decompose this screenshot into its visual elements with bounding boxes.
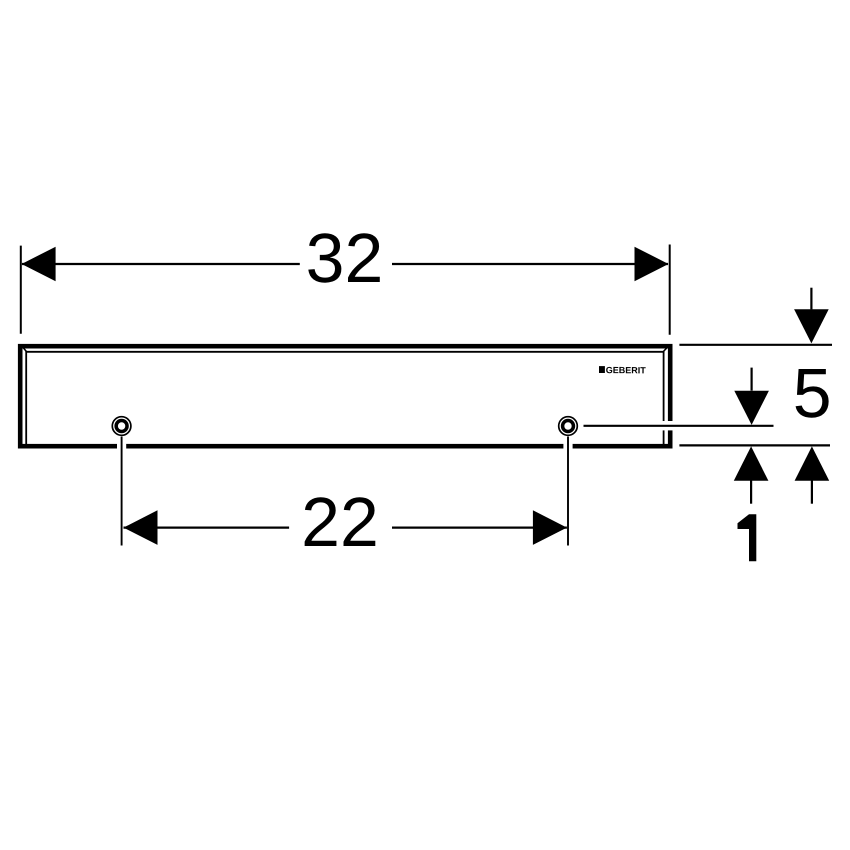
svg-text:32: 32 — [306, 219, 384, 297]
svg-text:GEBERIT: GEBERIT — [606, 365, 647, 375]
svg-text:5: 5 — [793, 354, 832, 432]
svg-text:22: 22 — [301, 483, 379, 561]
